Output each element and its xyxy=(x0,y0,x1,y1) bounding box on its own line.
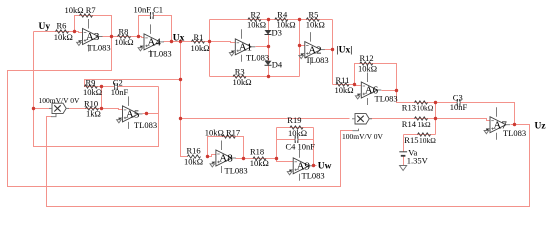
svg-text:10kΩ: 10kΩ xyxy=(83,87,102,97)
svg-text:10kΩ R7: 10kΩ R7 xyxy=(65,5,96,15)
svg-text:R10: R10 xyxy=(84,98,98,108)
svg-text:10kΩ: 10kΩ xyxy=(306,19,325,29)
svg-text:10nF: 10nF xyxy=(450,102,468,112)
svg-text:TL083: TL083 xyxy=(302,171,325,181)
svg-text:Ux: Ux xyxy=(173,33,185,43)
svg-text:10kΩ: 10kΩ xyxy=(335,85,354,95)
svg-text:R13: R13 xyxy=(402,102,416,112)
svg-text:TL083: TL083 xyxy=(375,93,398,103)
svg-text:R8: R8 xyxy=(119,27,129,37)
svg-text:R16: R16 xyxy=(187,145,201,155)
svg-text:R18: R18 xyxy=(250,146,264,156)
svg-text:TL083: TL083 xyxy=(246,52,269,62)
svg-text:10kΩ: 10kΩ xyxy=(417,103,434,112)
svg-text:10kΩ: 10kΩ xyxy=(191,43,210,53)
svg-text:10kΩ: 10kΩ xyxy=(358,63,377,73)
svg-text:R11: R11 xyxy=(336,75,350,85)
svg-text:1kΩ: 1kΩ xyxy=(418,120,432,129)
svg-text:Uw: Uw xyxy=(318,161,332,171)
svg-text:R2: R2 xyxy=(251,9,261,19)
svg-text:10nF C1: 10nF C1 xyxy=(134,4,164,14)
svg-text:R1: R1 xyxy=(194,32,204,42)
svg-text:A4: A4 xyxy=(147,37,161,49)
svg-text:10kΩ: 10kΩ xyxy=(250,158,269,168)
svg-text:10nF: 10nF xyxy=(111,87,129,97)
svg-text:A3: A3 xyxy=(86,31,100,43)
svg-text:TL083: TL083 xyxy=(149,49,172,59)
svg-text:TL083: TL083 xyxy=(225,166,248,176)
svg-text:10kΩ: 10kΩ xyxy=(54,32,73,42)
svg-text:R19: R19 xyxy=(287,115,301,125)
svg-text:A5: A5 xyxy=(126,109,140,121)
svg-text:D4: D4 xyxy=(272,60,283,70)
svg-text:1.35V: 1.35V xyxy=(407,155,429,165)
svg-text:10kΩ: 10kΩ xyxy=(247,19,266,29)
svg-text:TL083: TL083 xyxy=(88,43,111,53)
svg-text:R5: R5 xyxy=(309,9,319,19)
svg-text:10kΩ: 10kΩ xyxy=(419,136,436,145)
svg-text:TL083: TL083 xyxy=(134,120,157,130)
svg-text:R14: R14 xyxy=(402,119,417,129)
svg-text:R4: R4 xyxy=(277,9,288,19)
svg-text:10kΩ: 10kΩ xyxy=(184,156,203,166)
svg-text:D3: D3 xyxy=(272,27,282,37)
svg-text:100mV/V 0V: 100mV/V 0V xyxy=(342,132,383,141)
svg-text:Uy: Uy xyxy=(39,22,51,32)
svg-text:R12: R12 xyxy=(360,53,374,63)
svg-text:C4 10nF: C4 10nF xyxy=(286,141,316,151)
svg-text:R3: R3 xyxy=(235,66,245,76)
svg-text:|Ux|: |Ux| xyxy=(337,46,353,56)
svg-text:10kΩ: 10kΩ xyxy=(233,77,252,87)
svg-text:TL083: TL083 xyxy=(306,55,329,65)
svg-text:A8: A8 xyxy=(219,153,233,165)
svg-text:10kΩ: 10kΩ xyxy=(115,37,134,47)
svg-text:100mV/V 0V: 100mV/V 0V xyxy=(39,96,80,105)
svg-text:R6: R6 xyxy=(57,21,67,31)
svg-text:10kΩ R17: 10kΩ R17 xyxy=(205,127,240,137)
svg-text:1kΩ: 1kΩ xyxy=(86,108,101,118)
svg-text:TL083: TL083 xyxy=(503,128,526,138)
svg-text:R15: R15 xyxy=(404,135,418,145)
svg-text:Uz: Uz xyxy=(535,121,547,131)
